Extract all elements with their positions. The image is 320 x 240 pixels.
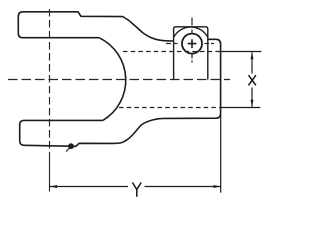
- bore hidden line top: [123, 51, 219, 53]
- weld dot: [68, 143, 74, 149]
- X down arrow: [251, 100, 254, 107]
- yoke throat arc: [99, 38, 126, 121]
- X dimension line upper: [251, 52, 253, 73]
- cross hole vertical centerline: [191, 18, 193, 63]
- vertical weld centerline: [49, 9, 51, 157]
- Y right arrow: [214, 185, 221, 188]
- yoke lower body outline: [20, 39, 221, 146]
- Y left extension line: [49, 157, 51, 192]
- cross hole circle: [182, 34, 202, 54]
- Y left arrow: [50, 185, 57, 188]
- yoke upper body outline: [18, 12, 173, 41]
- horizontal centerline: [8, 79, 230, 81]
- weld dot tail: [66, 147, 71, 152]
- bore hidden line bottom: [119, 107, 220, 109]
- X up arrow: [251, 52, 254, 59]
- Y dimension line right: [145, 186, 221, 188]
- bearing cap dome arc: [174, 27, 208, 37]
- Y label: [132, 183, 141, 197]
- Y dimension line left: [50, 186, 128, 188]
- X dimension line lower: [251, 88, 253, 107]
- cross hole horizontal centerline: [166, 43, 214, 45]
- X top extension line: [219, 51, 262, 53]
- Y right extension line: [220, 115, 222, 193]
- X label: [249, 75, 256, 85]
- X bottom extension line: [220, 107, 261, 109]
- bearing cap square: [174, 27, 208, 80]
- cross hole center mark: [188, 39, 197, 48]
